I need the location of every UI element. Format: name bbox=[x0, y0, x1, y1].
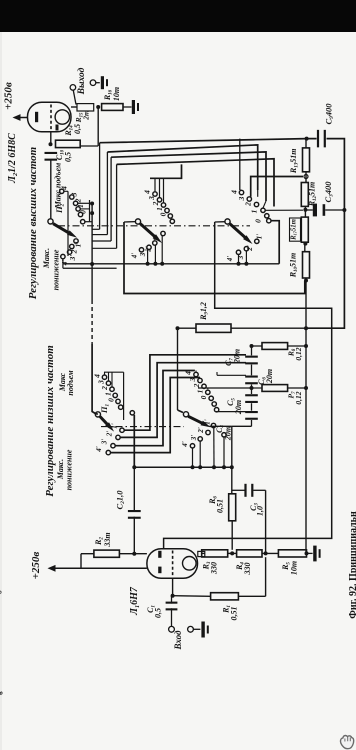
svg-text:С3​400: С3​400 bbox=[323, 181, 335, 203]
svg-text:0,51: 0,51 bbox=[216, 499, 225, 513]
svg-text:Выход: Выход bbox=[76, 67, 87, 95]
svg-text:1: 1 bbox=[196, 390, 205, 394]
svg-text:20т: 20т bbox=[265, 369, 274, 384]
svg-text:0,5: 0,5 bbox=[73, 124, 82, 134]
svg-text:0,5: 0,5 bbox=[64, 152, 73, 162]
svg-text:С9​400: С9​400 bbox=[324, 103, 336, 125]
svg-text:П1​: П1​ bbox=[99, 404, 111, 415]
svg-text:330: 330 bbox=[243, 563, 252, 576]
svg-text:2: 2 bbox=[244, 202, 253, 207]
svg-text:2: 2 bbox=[74, 198, 83, 203]
svg-text:0,5: 0,5 bbox=[154, 608, 163, 618]
svg-text:0,51: 0,51 bbox=[230, 607, 239, 621]
svg-text:4: 4 bbox=[93, 374, 102, 379]
svg-text:4: 4 bbox=[143, 190, 152, 195]
svg-text:С2​1,0: С2​1,0 bbox=[115, 490, 127, 510]
svg-text:4': 4' bbox=[226, 256, 234, 263]
svg-text:0: 0 bbox=[199, 395, 208, 399]
svg-text:3: 3 bbox=[237, 196, 246, 201]
svg-text:+250в: +250в bbox=[30, 552, 42, 580]
svg-text:2': 2' bbox=[106, 431, 114, 438]
svg-text:R17​51т: R17​51т bbox=[291, 219, 298, 241]
svg-text:понижение: понижение bbox=[65, 449, 74, 490]
svg-text:1': 1' bbox=[74, 242, 83, 248]
svg-text:4': 4' bbox=[95, 446, 103, 453]
svg-text:3: 3 bbox=[188, 377, 197, 382]
svg-text:2: 2 bbox=[192, 383, 201, 388]
svg-text:1: 1 bbox=[250, 210, 259, 214]
svg-text:1: 1 bbox=[76, 204, 85, 208]
svg-text:Регулирование высших частот: Регулирование высших частот bbox=[27, 146, 39, 299]
svg-text:1': 1' bbox=[256, 234, 264, 240]
svg-text:3': 3' bbox=[68, 255, 77, 262]
svg-text:Макс.подъем: Макс.подъем bbox=[54, 162, 63, 209]
svg-text:4': 4' bbox=[181, 441, 189, 448]
svg-text:2: 2 bbox=[151, 201, 160, 206]
svg-text:0: 0 bbox=[79, 210, 88, 214]
svg-text:Л2​1/2 6Н8С: Л2​1/2 6Н8С bbox=[7, 133, 19, 184]
svg-text:10т: 10т bbox=[112, 87, 121, 101]
svg-text:1,0: 1,0 bbox=[256, 506, 265, 516]
svg-text:1: 1 bbox=[104, 392, 113, 396]
svg-text:3: 3 bbox=[70, 192, 79, 197]
svg-text:Макс.: Макс. bbox=[42, 248, 51, 269]
svg-text:0: 0 bbox=[106, 398, 115, 402]
svg-text:4': 4' bbox=[60, 260, 69, 267]
svg-text:2: 2 bbox=[100, 386, 109, 391]
svg-text:3': 3' bbox=[101, 439, 109, 446]
svg-text:в: в bbox=[0, 691, 5, 695]
svg-text:2': 2' bbox=[70, 248, 79, 255]
svg-text:8: 8 bbox=[0, 590, 4, 594]
svg-text:20т: 20т bbox=[234, 400, 243, 415]
svg-text:подъем: подъем bbox=[66, 370, 75, 396]
svg-text:0: 0 bbox=[159, 212, 168, 216]
svg-text:R13​51т: R13​51т bbox=[289, 149, 299, 175]
svg-text:0: 0 bbox=[254, 219, 263, 223]
svg-text:3: 3 bbox=[147, 196, 156, 201]
svg-text:+250в: +250в bbox=[3, 82, 15, 110]
svg-text:2': 2' bbox=[197, 427, 205, 434]
svg-text:1': 1' bbox=[153, 236, 161, 242]
svg-text:20т: 20т bbox=[233, 349, 242, 364]
svg-text:понижение: понижение bbox=[52, 249, 61, 290]
svg-text:4: 4 bbox=[230, 190, 239, 195]
svg-text:330: 330 bbox=[210, 562, 219, 575]
svg-text:4: 4 bbox=[184, 371, 193, 376]
svg-text:3': 3' bbox=[139, 251, 147, 258]
svg-text:2': 2' bbox=[246, 245, 254, 252]
svg-text:R10​51т: R10​51т bbox=[289, 253, 299, 279]
svg-text:Вход: Вход bbox=[173, 630, 183, 651]
svg-text:0,12: 0,12 bbox=[294, 347, 303, 360]
svg-text:Л1​6Н7: Л1​6Н7 bbox=[129, 586, 141, 616]
svg-text:R9​1,2: R9​1,2 bbox=[199, 302, 209, 321]
svg-text:4': 4' bbox=[131, 253, 139, 260]
svg-text:33т: 33т bbox=[103, 532, 112, 547]
svg-text:2т: 2т bbox=[82, 110, 91, 121]
svg-text:0,12: 0,12 bbox=[294, 391, 303, 404]
svg-text:1': 1' bbox=[111, 423, 119, 429]
svg-text:3: 3 bbox=[97, 380, 106, 385]
svg-text:3': 3' bbox=[190, 435, 198, 442]
svg-text:10т: 10т bbox=[290, 561, 299, 575]
svg-text:1': 1' bbox=[204, 419, 212, 425]
svg-text:R12​51т: R12​51т bbox=[308, 182, 318, 208]
svg-text:Регулирование низших частот: Регулирование низших частот bbox=[44, 345, 56, 497]
svg-text:Фиг. 92. Принципиальн: Фиг. 92. Принципиальн bbox=[348, 511, 356, 619]
svg-text:1: 1 bbox=[155, 207, 164, 211]
